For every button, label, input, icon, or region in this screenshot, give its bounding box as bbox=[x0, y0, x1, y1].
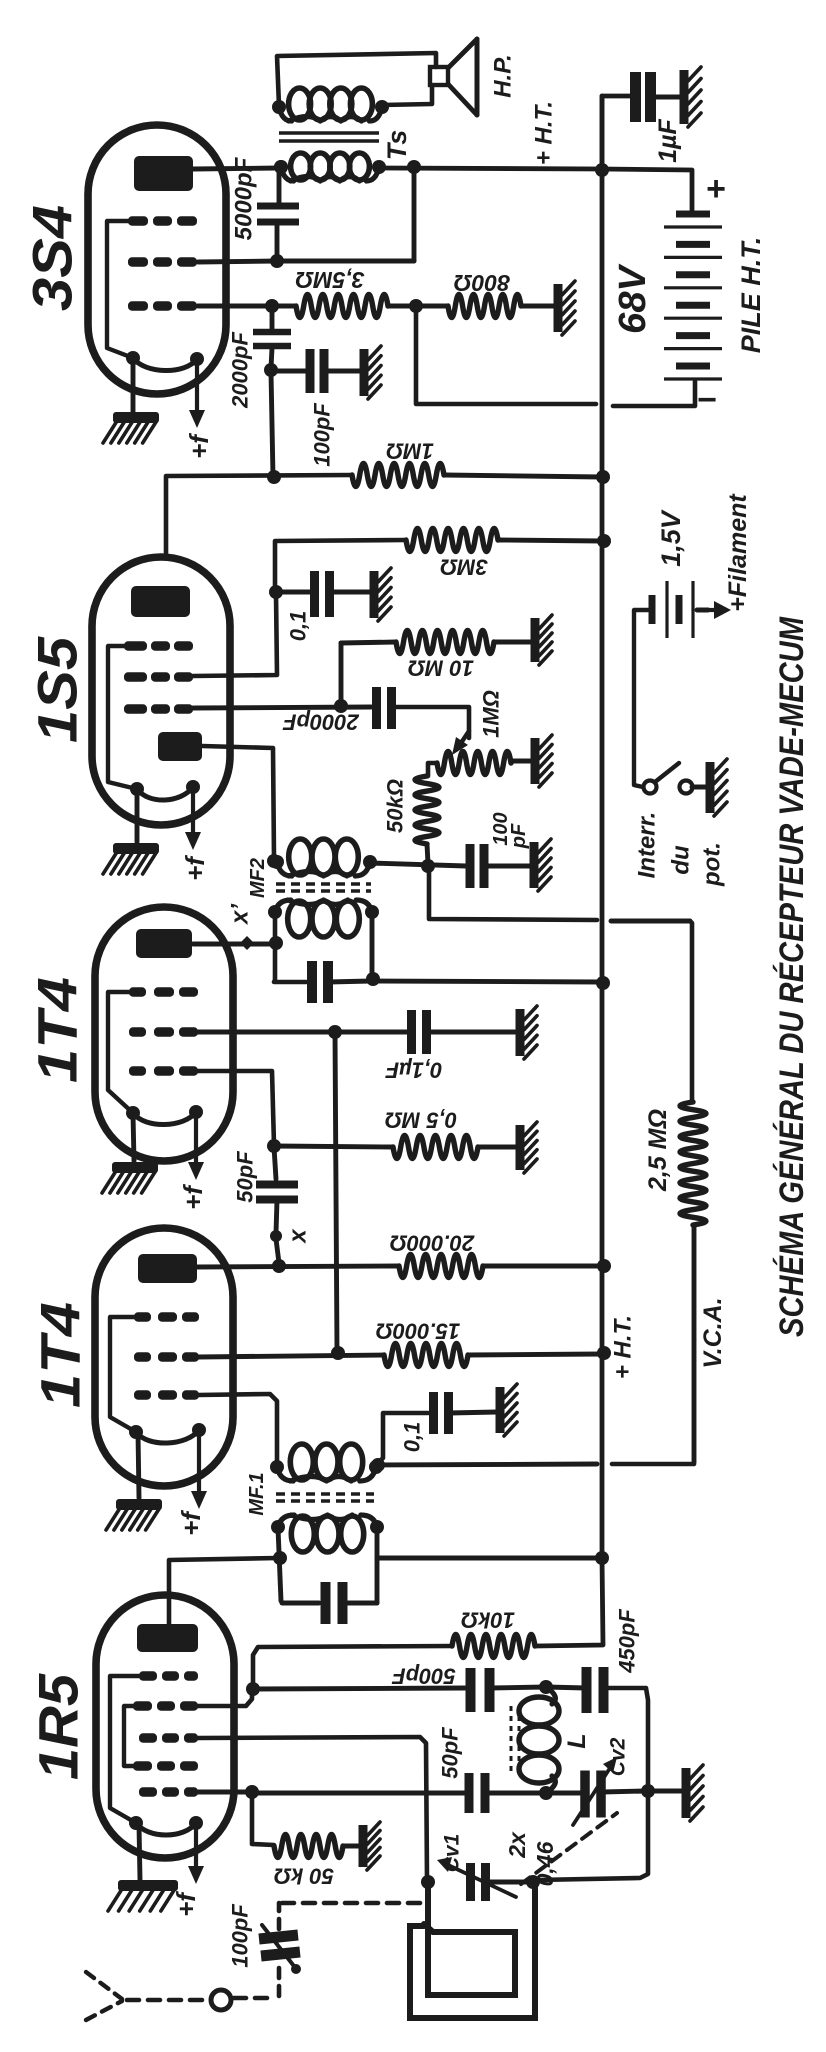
svg-text:+f: +f bbox=[176, 1510, 206, 1536]
wire MF2 primary left drop bbox=[274, 913, 306, 982]
svg-text:1T4: 1T4 bbox=[26, 977, 89, 1083]
svg-text:2000pF: 2000pF bbox=[228, 332, 253, 409]
ground 1T4b bbox=[106, 1499, 162, 1530]
svg-text:0,1: 0,1 bbox=[286, 611, 311, 642]
wire 100pF to ground bbox=[325, 369, 362, 374]
node MF1-bus end bbox=[595, 1551, 609, 1565]
svg-text:100pF: 100pF bbox=[228, 1904, 253, 1968]
transformer MF2 label bbox=[247, 858, 269, 898]
wire 1uF to ground bbox=[652, 95, 682, 100]
transformer Ts secondary winding bbox=[274, 153, 386, 181]
wire 50kΩ to detector line bbox=[427, 844, 428, 864]
wire 3.5M-800 junction bbox=[388, 304, 448, 309]
wire 3S4 plate lead bbox=[193, 168, 279, 169]
node MF2-bus bbox=[596, 976, 610, 990]
wire detector line bbox=[370, 863, 466, 866]
ground CV2 bbox=[686, 1765, 703, 1821]
wire pot left to 50kΩ bbox=[428, 763, 437, 776]
wire screen feed vertical bbox=[335, 1032, 337, 1352]
node L bottom bbox=[539, 1786, 553, 1800]
wire switch to ground bbox=[692, 785, 707, 790]
svg-text:+: + bbox=[706, 170, 726, 208]
svg-text:+ H.T.: + H.T. bbox=[531, 101, 558, 165]
wire AVC down bbox=[690, 921, 692, 1102]
coil L core dashes bbox=[511, 1706, 519, 1772]
wire MF2 to bus bbox=[373, 981, 601, 982]
transformer MF2 primary bbox=[268, 900, 379, 937]
ground 800Ω bbox=[558, 281, 575, 335]
node screen-500pF junction bbox=[246, 1682, 260, 1696]
battery 1,5V cells bbox=[652, 581, 693, 638]
svg-text:du: du bbox=[668, 845, 695, 875]
svg-text:20.000Ω: 20.000Ω bbox=[390, 1231, 475, 1256]
wire 1T4b grid row to MF1 bbox=[198, 1394, 277, 1465]
ground 1S5 bbox=[103, 843, 159, 874]
wire 50pF to x node bbox=[276, 1200, 277, 1233]
resistor 0,5MΩ label bbox=[385, 1108, 457, 1133]
resistor 0,5MΩ bbox=[393, 1136, 478, 1159]
wire 1T4b screen row bbox=[198, 1355, 384, 1357]
resistor 10MΩ bbox=[396, 631, 494, 654]
tube 1T4a anode plate bbox=[136, 929, 192, 958]
wire 10MΩ to ground bbox=[494, 640, 532, 645]
svg-text:PILE H.T.: PILE H.T. bbox=[736, 237, 766, 354]
wire grid to 2000pF bbox=[270, 306, 275, 330]
wire 50pF to L bottom bbox=[485, 1791, 546, 1796]
+f label 1T4b bbox=[176, 1510, 206, 1536]
resistor 50kΩ detector label bbox=[383, 779, 408, 833]
capacitor 0,1 MF1 label bbox=[400, 1422, 425, 1453]
tube 1T4b grid1-cathode tie wire bbox=[110, 1317, 136, 1432]
tube 1T4b envelope bbox=[95, 1228, 233, 1486]
wire grid junction to 50pF bbox=[274, 1147, 276, 1179]
tube 1S5 grid row 2 bbox=[124, 672, 193, 681]
node MF2 bottom right bbox=[366, 972, 380, 986]
tube 1S5 envelope bbox=[92, 557, 230, 825]
tube 1R5 cathode bbox=[129, 1816, 203, 1835]
tube 1T4a grid1-cathode tie wire bbox=[108, 992, 133, 1113]
label 2x bbox=[504, 1831, 530, 1859]
wire screen node to HT drop bbox=[277, 259, 414, 264]
potentiometer 1MΩ label bbox=[479, 690, 504, 738]
resistor 15.000Ω label bbox=[376, 1319, 460, 1344]
coil L label bbox=[563, 1733, 591, 1748]
svg-text:L: L bbox=[563, 1733, 591, 1748]
tube 1S5 diode plate bbox=[158, 732, 202, 761]
node 10MΩ junction bbox=[334, 699, 348, 713]
svg-text:1S5: 1S5 bbox=[26, 636, 89, 743]
capacitor 450pF bbox=[587, 1667, 604, 1713]
wire MF1 AVC line bbox=[376, 1464, 597, 1465]
capacitor 50pF AVC bbox=[256, 1185, 298, 1200]
tube 1T4a grid row 2 bbox=[129, 1027, 198, 1036]
tube 1R5 anode plate bbox=[137, 1624, 198, 1652]
svg-text:3MΩ: 3MΩ bbox=[440, 555, 488, 580]
svg-text:50kΩ: 50kΩ bbox=[383, 779, 408, 833]
node L top bbox=[539, 1680, 553, 1694]
battery 68V PILE H.T. cells bbox=[664, 214, 722, 379]
resistor 10kΩ bbox=[452, 1635, 535, 1658]
wire 500pF line bbox=[253, 1688, 465, 1689]
svg-text:50pF: 50pF bbox=[233, 1151, 258, 1203]
svg-text:800Ω: 800Ω bbox=[454, 270, 510, 296]
ground 50kΩ osc bbox=[363, 1822, 380, 1870]
wire 0,1 MF1 to ground bbox=[449, 1412, 497, 1413]
wire 3MΩ to bus bbox=[498, 540, 602, 541]
tube 1T4b grid row 3 bbox=[134, 1390, 199, 1399]
svg-text:3,5MΩ: 3,5MΩ bbox=[295, 267, 364, 293]
node 20k-bus bbox=[597, 1259, 611, 1273]
svg-text:1,5V: 1,5V bbox=[656, 509, 686, 567]
resistor 1MΩ label bbox=[386, 439, 434, 464]
wire 3MΩ branch bbox=[275, 540, 406, 592]
wire AVC bottom corner bbox=[612, 1462, 694, 1464]
wire 1,5V plus lead bbox=[697, 608, 708, 613]
wire 1S5 screen row right bbox=[193, 594, 277, 676]
tube 1R5 grid1-cathode tie wire bbox=[110, 1676, 139, 1823]
capacitor 50pF osc bbox=[469, 1773, 485, 1813]
wire L bottom to CV2 bbox=[546, 1791, 586, 1796]
node CV1 left bbox=[421, 1875, 435, 1889]
wire 10MΩ lead bbox=[341, 642, 396, 643]
label Interr. bbox=[634, 812, 661, 879]
wire 800Ω to ground bbox=[521, 304, 556, 309]
speaker H.P. cone bbox=[448, 39, 477, 115]
tube 1S5 cathode bbox=[130, 780, 200, 800]
battery minus label bbox=[697, 381, 717, 419]
antenna dashed lead bbox=[127, 1998, 207, 2003]
svg-text:pot.: pot. bbox=[699, 842, 726, 887]
capacitor 0,1 MF1 bbox=[434, 1392, 449, 1434]
wire Ts top-right to speaker bottom bbox=[382, 86, 432, 105]
capacitor 500pF label bbox=[392, 1664, 456, 1689]
tube 3S4 grid row 1 bbox=[128, 216, 197, 225]
node rail-bus junction bbox=[595, 163, 609, 177]
capacitor 100pF antenna label bbox=[228, 1904, 253, 1968]
resistor 3,5MΩ label bbox=[295, 267, 364, 293]
svg-text:Interr.: Interr. bbox=[634, 812, 661, 879]
svg-text:SCHÉMA GÉNÉRAL DU RÉCEPTEUR: SCHÉMA GÉNÉRAL DU RÉCEPTEUR VADE-MECUM bbox=[773, 616, 811, 1337]
wire 3S4 cathode to ground bbox=[131, 358, 136, 412]
capacitor CV2 label bbox=[607, 1737, 630, 1776]
wire 100pF to ground bbox=[485, 864, 531, 869]
+f filament arrow 1T4a bbox=[188, 1112, 204, 1180]
svg-text:10kΩ: 10kΩ bbox=[461, 1608, 515, 1633]
antenna symbol bbox=[86, 1972, 122, 2020]
tube 3S4 envelope bbox=[88, 125, 226, 394]
ground 0,1 1S5 bbox=[374, 568, 391, 621]
node rail at Ts bbox=[407, 160, 421, 174]
wire node to 100pF bbox=[271, 369, 309, 374]
capacitor CV1 bbox=[471, 1863, 486, 1901]
tube 1T4a grid row 3 bbox=[129, 1066, 198, 1075]
battery 68V label bbox=[612, 264, 654, 334]
capacitor 0,1uF bbox=[412, 1010, 427, 1054]
tube 3S4 cathode bbox=[126, 351, 204, 371]
wire MF1 to bus bbox=[377, 1556, 601, 1561]
wire 1,5V minus to switch bbox=[634, 610, 652, 787]
svg-text:+f: +f bbox=[171, 1891, 201, 1917]
ground 0,1uF bbox=[520, 1006, 537, 1059]
label x bbox=[285, 1228, 312, 1245]
tube 3S4 grid row 3 bbox=[128, 301, 197, 310]
ground 1uF bbox=[684, 67, 701, 127]
svg-text:MF.1: MF.1 bbox=[246, 1472, 268, 1515]
wire CV2 to node bbox=[602, 1791, 646, 1792]
wire battery minus lead bbox=[613, 381, 695, 406]
wire 3S4 screen row to node bbox=[198, 261, 277, 262]
wire 0,1 to ground bbox=[330, 590, 371, 595]
capacitor 5000pF bbox=[257, 206, 299, 222]
tube 1T4a envelope bbox=[95, 907, 233, 1161]
wire screen node to 0,1 cap bbox=[276, 590, 312, 595]
capacitor MF1 tuning bbox=[326, 1582, 343, 1624]
svg-text:0,1µF: 0,1µF bbox=[385, 1058, 442, 1083]
wire main B+ bus bbox=[600, 96, 605, 1558]
wire 1T4a grid row bbox=[198, 1071, 274, 1145]
coil L windings bbox=[519, 1687, 559, 1793]
ganging dashed link bbox=[521, 1813, 617, 1884]
wire MF2 primary right drop bbox=[370, 911, 375, 978]
antenna socket bbox=[211, 1990, 231, 2010]
node plate-RC junction bbox=[267, 470, 281, 484]
wire osc grid to 50pF bbox=[254, 1791, 465, 1796]
+Filament arrow bbox=[703, 601, 731, 619]
ground 10MΩ bbox=[535, 615, 552, 665]
transformer MF2 core bbox=[276, 884, 371, 891]
transformer MF1 primary bbox=[271, 1515, 384, 1552]
frame antenna inner turn bbox=[424, 1884, 515, 1995]
wire 2000pF to node bbox=[271, 348, 272, 368]
+f label 3S4 bbox=[184, 433, 214, 459]
capacitor CV1 arrowhead bbox=[437, 1857, 452, 1872]
+f filament arrow 3S4 bbox=[189, 359, 205, 428]
wire 1R5 plate lead bbox=[169, 1558, 278, 1624]
node grid-50pF junction bbox=[267, 1139, 281, 1153]
svg-text:V.C.A.: V.C.A. bbox=[699, 1297, 727, 1368]
wire bus top to 1uF bbox=[602, 96, 631, 168]
tube 1R5 grid2-grid4 tie wire bbox=[124, 1706, 133, 1766]
wire 1T4b plate to 20k bbox=[197, 1266, 399, 1267]
capacitor 0,1 1S5 bbox=[315, 571, 330, 617]
tube 3S4 anode plate bbox=[134, 156, 193, 191]
svg-text:500pF: 500pF bbox=[392, 1664, 456, 1689]
+f filament arrow 1T4b bbox=[191, 1430, 207, 1509]
svg-text:pF: pF bbox=[508, 823, 530, 849]
tube 1T4a cathode bbox=[126, 1105, 203, 1125]
svg-text:2000pF: 2000pF bbox=[283, 710, 360, 735]
battery plus label bbox=[706, 170, 726, 208]
capacitor CV1 arrow bbox=[446, 1864, 516, 1897]
tube 1T4b label bbox=[29, 1302, 92, 1408]
label V.C.A. bbox=[699, 1297, 727, 1368]
wire 0,5MΩ to ground bbox=[478, 1145, 517, 1150]
wire 10MΩ drop bbox=[339, 643, 344, 706]
ground pot bbox=[535, 735, 552, 787]
node x marker bbox=[270, 1230, 282, 1242]
transformer MF1 secondary bbox=[270, 1444, 383, 1481]
capacitor 500pF bbox=[471, 1668, 490, 1712]
resistor 3MΩ bbox=[406, 529, 498, 552]
resistor 3MΩ label bbox=[440, 555, 488, 580]
svg-text:100pF: 100pF bbox=[310, 403, 335, 467]
transformer MF1 core bbox=[276, 1494, 374, 1501]
capacitor 1uF bbox=[636, 72, 651, 122]
ground 100pF grid bbox=[364, 346, 381, 399]
ground 1T4a bbox=[102, 1162, 158, 1193]
capacitor 1uF label bbox=[654, 118, 682, 162]
wire +H.T. rail bbox=[379, 168, 692, 213]
transformer label Ts bbox=[382, 130, 412, 161]
wire L node to 450pF bbox=[546, 1687, 586, 1688]
wire 1R5 screen row right bbox=[198, 1692, 252, 1706]
resistor 10MΩ label bbox=[408, 656, 474, 681]
capacitor 0,1uF label bbox=[385, 1058, 442, 1083]
wire AVC down lower bbox=[692, 1225, 697, 1462]
node x-20k junction bbox=[272, 1259, 286, 1273]
wire 50kΩ osc to ground bbox=[343, 1844, 360, 1849]
svg-text:2,5 MΩ: 2,5 MΩ bbox=[644, 1109, 672, 1192]
tube 1S5 grid row 3 bbox=[124, 704, 193, 713]
node 5000pF bottom bbox=[270, 254, 284, 268]
resistor 2,5MΩ bbox=[680, 1102, 706, 1225]
wire MF2 cap right bbox=[328, 981, 371, 982]
wire CV2 node to ground bbox=[650, 1789, 683, 1794]
svg-text:1MΩ: 1MΩ bbox=[479, 690, 504, 738]
capacitor MF2 tuning bbox=[312, 961, 328, 1003]
antenna dashed lead 2 bbox=[234, 1996, 276, 2001]
wire 1T4a cathode to ground bbox=[133, 1114, 134, 1161]
wire 15k to bus bbox=[468, 1354, 602, 1355]
resistor 1MΩ bbox=[352, 464, 444, 487]
node CV2-ground bbox=[641, 1784, 655, 1798]
potentiometer wiper arrow bbox=[452, 731, 469, 755]
node CV1 right bbox=[526, 1875, 540, 1889]
wire AF node down to 1MΩ line bbox=[271, 372, 273, 477]
node osc grid bbox=[245, 1785, 259, 1799]
wire plate node to 5000pF bbox=[277, 170, 282, 205]
ground 100pF detector bbox=[534, 839, 551, 891]
capacitor CV2 arrow bbox=[573, 1757, 617, 1825]
wire HT drop vertical bbox=[412, 170, 417, 261]
svg-text:H.P.: H.P. bbox=[490, 54, 517, 98]
node AF coupling bbox=[264, 363, 278, 377]
capacitor 100pF grid bbox=[310, 349, 324, 393]
wire MF1 primary right drop bbox=[375, 1528, 380, 1603]
svg-text:50pF: 50pF bbox=[438, 1727, 463, 1779]
+f filament arrow 1R5 bbox=[188, 1824, 204, 1884]
svg-text:3S4: 3S4 bbox=[21, 205, 84, 311]
node MF2 primary left tap bbox=[269, 936, 283, 950]
svg-text:−: − bbox=[697, 381, 717, 419]
svg-text:MF2: MF2 bbox=[247, 858, 269, 898]
resistor 20.000Ω bbox=[399, 1255, 483, 1278]
ground 0,5MΩ bbox=[520, 1122, 537, 1173]
svg-text:15.000Ω: 15.000Ω bbox=[376, 1319, 460, 1344]
svg-text:0,5 MΩ: 0,5 MΩ bbox=[385, 1108, 457, 1133]
wire 5000pF to screen node bbox=[275, 224, 280, 258]
speaker H.P. driver square bbox=[430, 67, 448, 85]
wire 10kΩ drop bbox=[535, 1558, 603, 1646]
tube 3S4 grid1-cathode tie wire bbox=[107, 221, 133, 358]
wire 0,1 MF1 branch bbox=[378, 1413, 428, 1463]
svg-text:0,1: 0,1 bbox=[400, 1422, 425, 1453]
svg-text:+ H.T.: + H.T. bbox=[610, 1315, 637, 1379]
wire MF1 cap right bbox=[342, 1601, 377, 1606]
svg-text:5000pF: 5000pF bbox=[231, 156, 258, 240]
svg-text:+Filament: +Filament bbox=[724, 493, 752, 612]
tube 1T4a grid row 1 bbox=[129, 987, 198, 996]
label pot. bbox=[699, 842, 726, 887]
wire 1S5 plate line bbox=[166, 475, 352, 557]
node x-prime marker bbox=[240, 936, 254, 950]
+f label 1S5 bbox=[180, 855, 210, 881]
svg-text:1MΩ: 1MΩ bbox=[386, 439, 434, 464]
label 0,46 bbox=[532, 1841, 558, 1886]
wire osc grid leak drop bbox=[252, 1794, 274, 1845]
label +Filament bbox=[724, 493, 752, 612]
capacitor CV1 label bbox=[441, 1834, 464, 1873]
tube 1R5 envelope bbox=[96, 1595, 234, 1858]
svg-text:1R5: 1R5 bbox=[27, 1673, 90, 1780]
node MF1 secondary right bbox=[371, 1458, 385, 1472]
node detector junction bbox=[421, 859, 435, 873]
capacitor 2000pF label bbox=[228, 332, 253, 409]
transformer MF2 secondary bbox=[270, 839, 377, 876]
svg-text:2x: 2x bbox=[504, 1831, 530, 1859]
wire 1S5 diode lead bbox=[202, 746, 274, 858]
svg-text:10 MΩ: 10 MΩ bbox=[408, 656, 474, 681]
capacitor 100pF detector bbox=[470, 844, 484, 888]
capacitor 100pF grid label bbox=[310, 403, 335, 467]
node screen bypass junction bbox=[328, 1025, 342, 1039]
label x-prime bbox=[227, 904, 254, 926]
capacitor 50pF AVC label bbox=[233, 1151, 258, 1203]
capacitor 2000pF bbox=[253, 332, 291, 346]
node 3MΩ-bus bbox=[597, 534, 611, 548]
capacitor 450pF label bbox=[615, 1609, 640, 1674]
svg-text:1µF: 1µF bbox=[654, 118, 682, 162]
node 3S4 grid bbox=[265, 299, 279, 313]
svg-text:+f: +f bbox=[180, 855, 210, 881]
node Ts primary left bbox=[274, 160, 288, 174]
transformer Ts core bbox=[279, 133, 379, 141]
svg-text:68V: 68V bbox=[612, 264, 654, 334]
capacitor 100pF antenna trimmer line bbox=[262, 1925, 301, 1974]
label + H.T. bbox=[531, 101, 558, 165]
wire pot to ground bbox=[511, 759, 532, 764]
resistor 2,5MΩ label bbox=[644, 1109, 672, 1192]
ground 1R5 bbox=[108, 1880, 178, 1911]
tube 1T4b grid row 1 bbox=[134, 1312, 199, 1321]
capacitor 2000pF detector label bbox=[283, 710, 360, 735]
svg-text:x: x bbox=[285, 1228, 312, 1245]
+f filament arrow 1S5 bbox=[185, 787, 201, 850]
svg-text:1T4: 1T4 bbox=[29, 1302, 92, 1408]
svg-text:450pF: 450pF bbox=[615, 1609, 640, 1674]
battery PILE H.T. label bbox=[736, 237, 766, 354]
wire MF1 primary left drop bbox=[278, 1528, 281, 1601]
node MF2 secondary left bbox=[267, 854, 281, 868]
+f label 1R5 bbox=[171, 1891, 201, 1917]
svg-text:+f: +f bbox=[178, 1184, 208, 1210]
tube 1R5 grid row 3 bbox=[139, 1733, 198, 1742]
node bias junction bbox=[409, 299, 423, 313]
resistor 800Ω label bbox=[454, 270, 510, 296]
resistor 50kΩ osc label bbox=[274, 1864, 334, 1889]
wire 1S5 cathode to ground bbox=[135, 789, 140, 842]
battery 1,5V label bbox=[656, 509, 686, 567]
